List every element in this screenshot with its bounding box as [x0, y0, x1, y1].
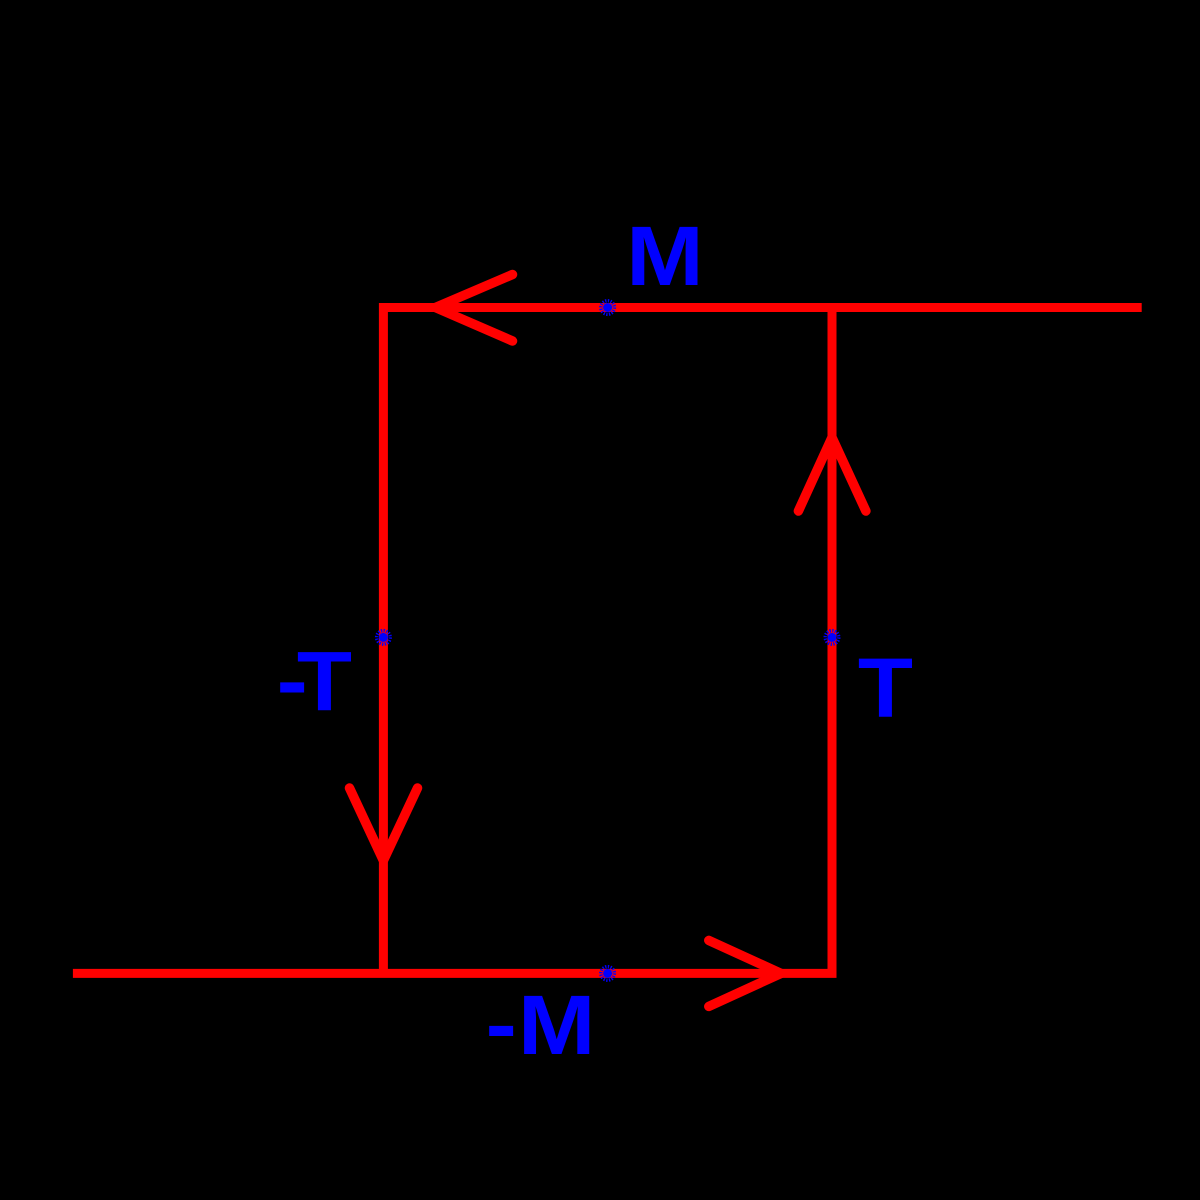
- label M (top branch): [626, 209, 704, 303]
- arrow: downward direction arrow on left branch: [350, 788, 418, 861]
- label -M (bottom branch): minus sign: [486, 977, 517, 1071]
- node: point marker on top branch: [601, 301, 615, 315]
- node: point marker on right branch: [825, 631, 839, 645]
- arrow: rightward direction arrow on bottom branch: [709, 940, 781, 1006]
- svg-text:-: -: [486, 977, 517, 1071]
- wire: top horizontal branch joined to left vertical branch: [383, 308, 1141, 974]
- label -T (left branch): letter T: [297, 635, 352, 729]
- node: point marker on left branch: [377, 631, 391, 645]
- svg-text:T: T: [297, 635, 352, 729]
- label -M (bottom branch): letter M: [518, 978, 596, 1072]
- arrow: upward direction arrow on right branch: [798, 438, 866, 512]
- svg-text:M: M: [518, 978, 596, 1072]
- svg-text:M: M: [626, 209, 704, 303]
- label -T (left branch): minus sign: [277, 634, 308, 728]
- node: point marker on bottom branch: [601, 967, 615, 981]
- arrow: leftward direction arrow on top branch: [436, 275, 513, 342]
- svg-text:T: T: [858, 641, 913, 735]
- label T (right branch): [858, 641, 913, 735]
- wire: bottom horizontal branch joined to right vertical branch: [73, 308, 832, 974]
